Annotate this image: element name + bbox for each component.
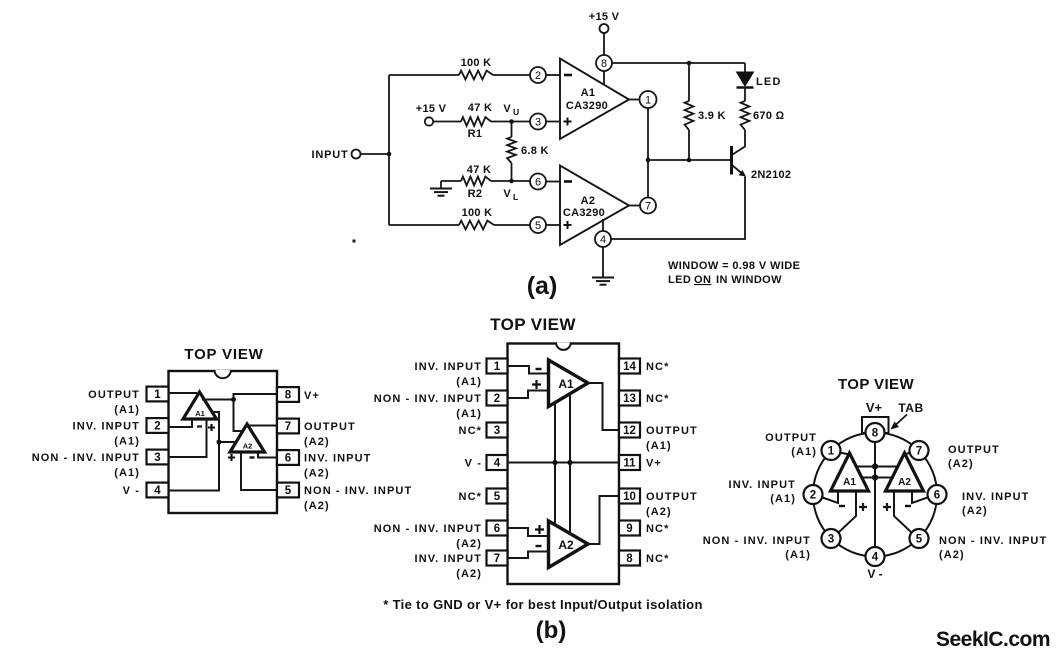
label pin 5 (14-pin DIP) xyxy=(459,491,482,503)
wire pin7 to A2 minus xyxy=(508,552,549,559)
svg-text:+15 V: +15 V xyxy=(416,103,447,115)
index notch (14-pin) xyxy=(556,343,571,350)
wire node down to pin7 xyxy=(647,160,649,197)
pin 3 (can) xyxy=(822,529,841,548)
pin 2 (can) xyxy=(804,485,823,504)
resistor R2 47K xyxy=(461,164,491,200)
svg-text:(A2): (A2) xyxy=(304,500,330,512)
resistor R1 47K xyxy=(461,102,492,140)
wire input to junction xyxy=(361,153,390,155)
wire pin6 to A2 plus xyxy=(508,528,549,536)
wire R2 to VL xyxy=(491,180,530,182)
svg-text:12: 12 xyxy=(623,425,636,437)
svg-text:A2: A2 xyxy=(243,442,253,451)
plus sign A2 xyxy=(228,454,235,461)
svg-text:(a): (a) xyxy=(527,272,558,300)
svg-text:47 K: 47 K xyxy=(467,164,491,176)
wire rail to 3.9K xyxy=(688,63,690,101)
label pin 13 (14-pin DIP) xyxy=(646,393,669,405)
svg-text:11: 11 xyxy=(623,458,636,470)
caption (a) xyxy=(527,272,558,300)
svg-text:8: 8 xyxy=(601,58,607,70)
svg-text:TAB: TAB xyxy=(898,401,923,415)
arrow TAB to tab xyxy=(891,415,908,430)
svg-text:100 K: 100 K xyxy=(461,57,492,69)
node V- junction xyxy=(217,440,222,445)
pin 4 (8-pin DIP) xyxy=(147,483,169,498)
label pin 12 (14-pin DIP) xyxy=(646,425,698,452)
op-amp A2 symbol (can) xyxy=(886,453,924,491)
svg-text:R1: R1 xyxy=(468,128,483,140)
wire pin8 to A1 xyxy=(603,71,605,85)
minus sign A2 xyxy=(250,456,255,458)
svg-text:(A1): (A1) xyxy=(114,436,140,448)
wire pin1 to A1 apex xyxy=(840,453,850,455)
wire 670 to collector xyxy=(733,130,746,155)
wire pin6 to A2 inv input xyxy=(546,181,560,183)
svg-text:NON - INV. INPUT: NON - INV. INPUT xyxy=(32,452,140,464)
wire A1 plus lead to pin3 xyxy=(839,491,857,533)
wire pin2 to A1 minus xyxy=(169,419,193,427)
svg-text:OUTPUT: OUTPUT xyxy=(646,491,698,503)
svg-text:670 Ω: 670 Ω xyxy=(753,110,785,122)
svg-text:OUTPUT: OUTPUT xyxy=(88,389,140,401)
title TOP VIEW (8-pin DIP) xyxy=(184,346,263,363)
wire emitter down and to pin4 xyxy=(611,177,745,240)
op-amp A1 CA3290 xyxy=(560,59,629,140)
svg-text:(A1): (A1) xyxy=(456,376,482,388)
svg-text:OUTPUT: OUTPUT xyxy=(646,425,698,437)
label pin 1 (can) xyxy=(765,432,817,458)
pin 9 (14-pin DIP) xyxy=(619,521,640,536)
pin 14 (14-pin DIP) xyxy=(619,359,640,374)
svg-text:1: 1 xyxy=(645,94,651,106)
svg-text:(A2): (A2) xyxy=(304,468,330,480)
pin 4 (can) xyxy=(866,547,885,566)
svg-text:5: 5 xyxy=(285,485,292,497)
pin 5 (14-pin DIP) xyxy=(487,489,508,504)
svg-text:2: 2 xyxy=(494,393,500,405)
svg-text:A2: A2 xyxy=(898,477,911,488)
pin 2 (8-pin DIP) xyxy=(147,418,169,433)
svg-text:1: 1 xyxy=(828,446,835,458)
node 3.9K/base junction xyxy=(687,158,692,163)
wire top branch left xyxy=(389,74,459,76)
pin 13 (14-pin DIP) xyxy=(619,391,640,406)
minus sign A2 (can) xyxy=(905,505,911,507)
wire A2 output xyxy=(629,205,640,207)
pin 11 (14-pin DIP) xyxy=(619,455,640,470)
wire A1 output xyxy=(629,99,640,101)
node V- (14-pin) xyxy=(552,460,557,465)
wire A1 to junction xyxy=(202,399,234,401)
svg-text:7: 7 xyxy=(645,200,651,212)
wire LED to 670 xyxy=(744,88,746,102)
svg-text:NC*: NC* xyxy=(459,491,482,503)
svg-text:5: 5 xyxy=(535,220,541,232)
svg-text:OUTPUT: OUTPUT xyxy=(765,432,817,444)
wire V- vertical xyxy=(554,403,556,526)
svg-text:6: 6 xyxy=(494,523,500,535)
index notch xyxy=(215,370,231,378)
svg-text:NC*: NC* xyxy=(646,553,669,565)
svg-text:INV. INPUT: INV. INPUT xyxy=(73,421,140,433)
label pin 8 (8-pin DIP) xyxy=(304,390,320,402)
wire bottom branch left xyxy=(389,224,459,226)
svg-text:LED: LED xyxy=(668,274,691,286)
wire A1 output to pin12 xyxy=(588,383,619,430)
wire pin5 to A2 non-inv input xyxy=(546,224,560,226)
svg-text:V: V xyxy=(503,188,511,200)
svg-text:7: 7 xyxy=(916,446,922,458)
LED xyxy=(737,63,782,88)
title TOP VIEW (14-pin DIP) xyxy=(490,315,576,334)
node VL xyxy=(503,179,518,202)
wire pin1 to A1 output xyxy=(169,392,198,394)
svg-text:NC*: NC* xyxy=(646,361,669,373)
label pin 11 (14-pin DIP) xyxy=(646,458,662,470)
svg-text:L: L xyxy=(513,192,518,202)
svg-text:* Tie to GND or V+ for best In: * Tie to GND or V+ for best Input/Output… xyxy=(383,597,703,612)
svg-text:A1: A1 xyxy=(843,477,856,488)
svg-text:OUTPUT: OUTPUT xyxy=(304,421,356,433)
pin 1 (14-pin DIP) xyxy=(487,359,508,374)
pin 4 (14-pin DIP) xyxy=(487,455,508,470)
svg-text:CA3290: CA3290 xyxy=(563,207,605,219)
stray mark xyxy=(353,240,356,243)
node output join xyxy=(646,158,651,163)
svg-text:INV. INPUT: INV. INPUT xyxy=(304,453,371,465)
plus sign A2 (14-pin) xyxy=(535,525,544,534)
wire pin2 to A1 plus xyxy=(508,391,549,399)
pin 10 (14-pin DIP) xyxy=(619,489,640,504)
label pin 1 (14-pin DIP) xyxy=(415,361,482,388)
svg-text:(A2): (A2) xyxy=(646,506,672,518)
svg-text:V+: V+ xyxy=(646,458,662,470)
svg-text:INPUT: INPUT xyxy=(312,149,349,161)
svg-text:NC*: NC* xyxy=(646,523,669,535)
svg-text:CA3290: CA3290 xyxy=(566,100,608,112)
svg-text:4: 4 xyxy=(494,458,501,470)
svg-text:7: 7 xyxy=(285,421,291,433)
wire +15V to R1 xyxy=(433,121,461,123)
label pin 10 (14-pin DIP) xyxy=(646,491,698,518)
wire VU to 6.8K xyxy=(511,122,513,138)
label pin 5 (can) xyxy=(939,535,1047,561)
svg-text:NC*: NC* xyxy=(646,393,669,405)
pin 1 (8-pin DIP) xyxy=(147,387,169,402)
wire +15V to pin8 xyxy=(603,33,605,55)
pin 3 xyxy=(530,114,546,130)
wire ground to R2 xyxy=(441,180,461,182)
svg-text:R2: R2 xyxy=(468,188,483,200)
pin 2 xyxy=(530,67,546,83)
minus sign A1 xyxy=(197,425,202,427)
svg-text:47 K: 47 K xyxy=(468,102,492,114)
svg-text:13: 13 xyxy=(623,393,636,405)
note window text xyxy=(668,260,800,286)
svg-text:TOP VIEW: TOP VIEW xyxy=(184,346,263,363)
pin 1 (can) xyxy=(822,441,841,460)
pin 1 xyxy=(640,91,657,108)
svg-text:(A1): (A1) xyxy=(114,467,140,479)
svg-text:(A2): (A2) xyxy=(456,568,482,580)
wire pin4 to pin11 rail xyxy=(508,462,620,464)
svg-text:(A2): (A2) xyxy=(304,436,330,448)
label pin 3 (can) xyxy=(703,535,811,561)
minus sign A1 (can) xyxy=(839,505,845,507)
pin 8 (14-pin DIP) xyxy=(619,551,640,566)
svg-text:(A1): (A1) xyxy=(114,404,140,416)
plus sign A1 xyxy=(208,424,215,431)
svg-text:3: 3 xyxy=(535,116,541,128)
op-amp A2 symbol (8-pin DIP) xyxy=(230,424,265,452)
label V+ (tab) xyxy=(866,400,883,415)
pin 6 (14-pin DIP) xyxy=(487,521,508,536)
svg-text:3: 3 xyxy=(828,534,834,546)
svg-text:2: 2 xyxy=(154,421,160,433)
node center upper xyxy=(872,463,878,469)
svg-text:A1: A1 xyxy=(558,377,574,391)
ground (R2) xyxy=(430,181,452,196)
pin 3 (8-pin DIP) xyxy=(147,450,169,465)
svg-text:INV. INPUT: INV. INPUT xyxy=(729,479,796,491)
wire VU to pin3 xyxy=(491,121,530,123)
label pin 5 (8-pin DIP) xyxy=(304,485,412,512)
wire cross link upper xyxy=(856,466,898,468)
svg-text:NC*: NC* xyxy=(459,425,482,437)
wire 3.9K to base node xyxy=(688,130,690,160)
svg-text:NON - INV. INPUT: NON - INV. INPUT xyxy=(304,485,412,497)
wire 6.8K to VL xyxy=(511,163,513,181)
wire pin3 to A1 non-inv input xyxy=(546,121,560,123)
svg-text:NON - INV. INPUT: NON - INV. INPUT xyxy=(703,535,811,547)
svg-text:(A2): (A2) xyxy=(948,458,974,470)
node center lower xyxy=(872,474,878,480)
+15V supply terminal (top) xyxy=(589,11,620,33)
svg-text:2N2102: 2N2102 xyxy=(751,169,791,181)
pin 5 (8-pin DIP) xyxy=(277,483,299,498)
svg-text:A1: A1 xyxy=(581,87,596,99)
svg-text:OUTPUT: OUTPUT xyxy=(948,444,1000,456)
svg-text:INV. INPUT: INV. INPUT xyxy=(415,361,482,373)
wire A2 plus lead to pin5 xyxy=(894,491,912,533)
pin 5 (can) xyxy=(910,529,929,548)
can body circle xyxy=(813,433,937,557)
minus sign A2 (14-pin) xyxy=(536,545,542,547)
pin 8 (8-pin DIP) xyxy=(277,387,299,402)
pin 8 (can) xyxy=(866,423,885,442)
svg-text:V -: V - xyxy=(123,485,140,497)
svg-text:WINDOW = 0.98 V WIDE: WINDOW = 0.98 V WIDE xyxy=(668,260,800,272)
svg-text:(A1): (A1) xyxy=(791,446,817,458)
svg-text:V -: V - xyxy=(465,458,482,470)
svg-text:14: 14 xyxy=(623,361,636,373)
watermark SeekIC.com xyxy=(936,628,1050,651)
svg-text:+15 V: +15 V xyxy=(589,11,620,23)
caption (b) xyxy=(536,617,567,644)
svg-text:4: 4 xyxy=(154,485,161,497)
wire input bus vertical xyxy=(388,75,390,225)
wire V- to A2 xyxy=(219,441,236,443)
node V+ junction xyxy=(231,397,236,402)
svg-text:INV. INPUT: INV. INPUT xyxy=(962,491,1029,503)
svg-text:ON: ON xyxy=(694,274,711,286)
label pin 2 (8-pin DIP) xyxy=(73,421,140,448)
node rail/3.9K junction xyxy=(687,61,692,66)
svg-text:U: U xyxy=(513,107,519,117)
svg-text:8: 8 xyxy=(626,553,633,565)
wire output node to base xyxy=(648,159,730,161)
plus sign A2 (can) xyxy=(883,503,891,511)
+15V supply terminal (left) xyxy=(416,103,447,126)
op-amp A1 symbol (8-pin DIP) xyxy=(183,392,217,419)
wire pin4 V- rail xyxy=(169,412,220,491)
wire pin2 to A1 inv input xyxy=(546,74,560,76)
svg-text:10: 10 xyxy=(623,491,636,503)
plus sign A1 (can) xyxy=(859,503,867,511)
label pin 6 (8-pin DIP) xyxy=(304,453,371,480)
wire pin6 to A2 minus xyxy=(258,452,277,458)
svg-text:3: 3 xyxy=(154,452,160,464)
svg-text:6: 6 xyxy=(934,490,940,502)
svg-text:(A1): (A1) xyxy=(770,493,796,505)
svg-text:V -: V - xyxy=(867,567,882,581)
svg-text:5: 5 xyxy=(494,491,501,503)
svg-text:(A2): (A2) xyxy=(962,505,988,517)
svg-text:LED: LED xyxy=(756,76,782,88)
label pin 6 (14-pin DIP) xyxy=(374,523,482,550)
pin 7 (8-pin DIP) xyxy=(277,419,299,434)
svg-text:SeekIC.com: SeekIC.com xyxy=(936,628,1050,651)
svg-text:3.9 K: 3.9 K xyxy=(698,110,726,122)
label V- (can) xyxy=(867,567,882,581)
pin 12 (14-pin DIP) xyxy=(619,423,640,438)
svg-text:IN WINDOW: IN WINDOW xyxy=(716,274,782,286)
wire top rail xyxy=(612,62,745,64)
svg-text:V+: V+ xyxy=(304,390,320,402)
wire cross link lower xyxy=(861,477,893,479)
label pin 14 (14-pin DIP) xyxy=(646,361,669,373)
wire A2 minus lead to pin6 xyxy=(912,491,928,503)
plus sign A1 (14-pin) xyxy=(532,380,541,389)
wire V+ vertical xyxy=(569,394,571,535)
label pin 3 (14-pin DIP) xyxy=(459,425,482,437)
wire 100K to pin2 xyxy=(493,74,530,76)
wire 100K to pin5 xyxy=(494,224,530,226)
pin 2 (14-pin DIP) xyxy=(487,391,508,406)
wire A2 output to pin7 xyxy=(249,425,277,427)
svg-text:2: 2 xyxy=(535,70,541,82)
svg-text:8: 8 xyxy=(872,428,879,440)
svg-text:9: 9 xyxy=(626,523,632,535)
label pin 7 (8-pin DIP) xyxy=(304,421,356,448)
wire A1 minus lead to pin2 xyxy=(823,491,839,503)
svg-text:3: 3 xyxy=(494,425,500,437)
svg-text:(b): (b) xyxy=(536,617,567,644)
svg-text:TOP VIEW: TOP VIEW xyxy=(838,376,914,393)
svg-text:1: 1 xyxy=(494,361,501,373)
resistor 6.8K xyxy=(507,137,549,163)
node V+ (14-pin) xyxy=(567,460,572,465)
wire pin5 to A2 plus xyxy=(241,452,277,490)
wire pin3 to A1 plus xyxy=(169,419,207,457)
IC body 14-pin DIP xyxy=(508,344,620,585)
label pin 4 (14-pin DIP) xyxy=(465,458,482,470)
svg-text:(A1): (A1) xyxy=(456,408,482,420)
svg-text:7: 7 xyxy=(494,553,500,565)
op-amp A2 CA3290 xyxy=(560,166,629,246)
wire pin8 V+ down to A2 xyxy=(234,394,278,431)
pin 7 xyxy=(640,198,656,214)
ground (pin 4) xyxy=(592,247,614,285)
footnote tie to GND xyxy=(383,597,703,612)
node VU xyxy=(503,103,519,124)
label pin 7 (can) xyxy=(948,444,1000,470)
svg-text:8: 8 xyxy=(285,390,292,402)
svg-text:TOP VIEW: TOP VIEW xyxy=(490,315,576,334)
label pin 8 (14-pin DIP) xyxy=(646,553,669,565)
label pin 9 (14-pin DIP) xyxy=(646,523,669,535)
node input junction xyxy=(387,152,392,157)
svg-text:V: V xyxy=(503,103,511,115)
wire pin4 to A2 xyxy=(602,219,604,231)
minus sign A1 (14-pin) xyxy=(536,368,542,370)
svg-text:A2: A2 xyxy=(558,538,574,552)
label pin 1 (8-pin DIP) xyxy=(88,389,140,416)
wire pin7 to A2 apex xyxy=(905,453,911,455)
svg-text:V+: V+ xyxy=(866,400,883,415)
svg-text:100 K: 100 K xyxy=(462,207,493,219)
label pin 4 (8-pin DIP) xyxy=(123,485,140,497)
op-amp A1 symbol (can) xyxy=(831,453,869,491)
pin 6 (8-pin DIP) xyxy=(277,450,299,465)
svg-text:(A2): (A2) xyxy=(456,538,482,550)
resistor 100K (top) xyxy=(459,57,493,79)
label pin 7 (14-pin DIP) xyxy=(415,553,482,580)
label TAB xyxy=(898,401,923,415)
resistor 100K (bottom) xyxy=(459,207,494,229)
label pin 3 (8-pin DIP) xyxy=(32,452,140,479)
pin 7 (can) xyxy=(910,441,929,460)
pin 3 (14-pin DIP) xyxy=(487,423,508,438)
svg-text:(A1): (A1) xyxy=(646,440,672,452)
svg-text:2: 2 xyxy=(810,490,816,502)
pin 7 (14-pin DIP) xyxy=(487,551,508,566)
svg-text:1: 1 xyxy=(154,389,161,401)
wire pin1 down to output node xyxy=(647,108,649,160)
svg-text:INV. INPUT: INV. INPUT xyxy=(415,553,482,565)
svg-text:A1: A1 xyxy=(195,409,205,418)
svg-text:NON - INV. INPUT: NON - INV. INPUT xyxy=(374,523,482,535)
op-amp A2 symbol (14-pin DIP) xyxy=(549,521,589,568)
pin 5 xyxy=(530,217,546,233)
svg-text:NON - INV. INPUT: NON - INV. INPUT xyxy=(939,535,1047,547)
pin 4 xyxy=(595,231,611,247)
tab square xyxy=(862,417,889,433)
svg-text:4: 4 xyxy=(600,234,606,246)
wire V+ center vertical xyxy=(874,442,876,547)
svg-text:4: 4 xyxy=(872,552,879,564)
pin 6 (can) xyxy=(928,485,947,504)
svg-text:(A1): (A1) xyxy=(785,549,811,561)
label pin 2 (14-pin DIP) xyxy=(374,393,482,420)
wire pin1 to A1 minus xyxy=(508,366,549,374)
op-amp A1 symbol (14-pin DIP) xyxy=(549,360,589,407)
svg-text:6: 6 xyxy=(285,453,291,465)
transistor 2N2102 xyxy=(732,146,792,181)
svg-text:(A2): (A2) xyxy=(939,549,965,561)
